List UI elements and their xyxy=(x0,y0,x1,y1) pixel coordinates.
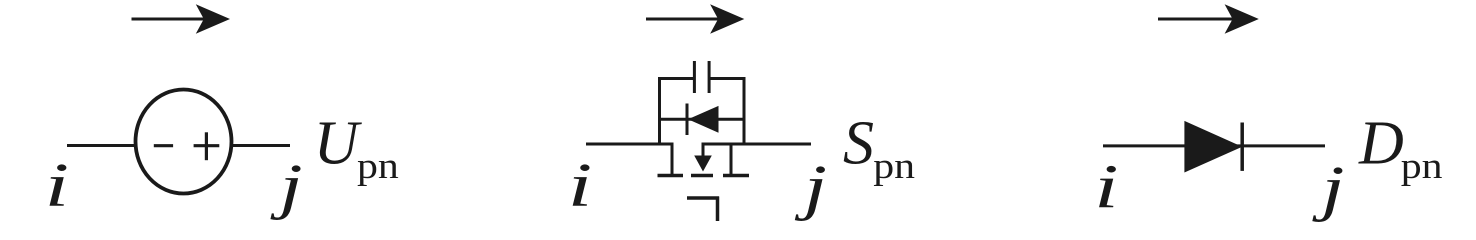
wire: left vertical of S_pn parallel branch xyxy=(658,77,661,146)
current arrow over D_pn xyxy=(1158,4,1259,33)
MOSFET gate lead xyxy=(687,197,719,222)
voltage source U_pn circle xyxy=(136,90,232,194)
wire: antiparallel diode branch xyxy=(658,118,746,121)
MOSFET drain lead xyxy=(671,144,674,176)
value label S_pn xyxy=(843,110,915,187)
svg-text:pn: pn xyxy=(1401,145,1443,186)
svg-text:pn: pn xyxy=(357,145,399,186)
svg-text:i: i xyxy=(1094,153,1118,221)
value label U_pn xyxy=(314,110,399,187)
diode D_pn cathode bar xyxy=(1240,123,1244,171)
MOSFET source lead xyxy=(730,144,733,176)
svg-text:j: j xyxy=(795,152,827,221)
current arrow over S_pn xyxy=(646,4,744,33)
minus polarity mark of U_pn xyxy=(154,144,173,147)
svg-text:i: i xyxy=(45,151,69,219)
antiparallel diode triangle xyxy=(688,106,719,133)
diode D_pn triangle xyxy=(1184,121,1242,173)
wire: node i to diode D_pn and on to node j xyxy=(1103,144,1325,147)
MOSFET body arrow xyxy=(694,144,712,172)
value label D_pn xyxy=(1358,110,1443,187)
plus polarity mark of U_pn xyxy=(194,132,220,160)
svg-text:j: j xyxy=(1312,153,1344,222)
wire: top branch to capacitor xyxy=(658,77,746,80)
svg-text:D: D xyxy=(1358,110,1404,178)
wire: right vertical of S_pn parallel branch xyxy=(743,77,746,146)
wire: voltage source U_pn to node j xyxy=(230,144,290,147)
svg-text:S: S xyxy=(843,110,874,178)
capacitor plates of S_pn snubber xyxy=(694,61,709,93)
svg-text:pn: pn xyxy=(873,145,915,186)
MOSFET channel dashes xyxy=(658,174,750,178)
wire: node i to switch S_pn (drain side) xyxy=(586,143,674,146)
svg-text:j: j xyxy=(270,151,302,220)
current arrow over U_pn xyxy=(132,4,231,33)
svg-text:U: U xyxy=(314,110,363,178)
svg-text:i: i xyxy=(568,151,592,219)
wire: node i to voltage source U_pn xyxy=(67,144,137,147)
wire: switch S_pn to node j (source side) xyxy=(702,143,812,146)
antiparallel diode cathode bar xyxy=(686,104,689,136)
